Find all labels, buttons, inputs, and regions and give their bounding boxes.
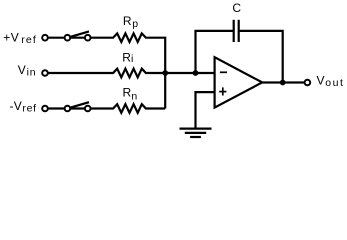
svg-text:R: R xyxy=(123,14,132,28)
svg-text:V: V xyxy=(11,31,19,45)
svg-text:R: R xyxy=(123,85,132,99)
svg-text:V: V xyxy=(14,99,22,113)
svg-text:p: p xyxy=(132,18,138,30)
svg-text:in: in xyxy=(27,67,36,79)
svg-text:V: V xyxy=(317,74,325,88)
svg-text:V: V xyxy=(18,63,26,77)
svg-text:C: C xyxy=(232,1,241,15)
svg-text:ref: ref xyxy=(21,34,36,46)
svg-text:out: out xyxy=(325,77,343,89)
svg-text:i: i xyxy=(131,53,133,65)
svg-text:n: n xyxy=(131,91,137,103)
svg-text:R: R xyxy=(122,50,131,64)
svg-text:ref: ref xyxy=(22,103,36,115)
svg-text:+: + xyxy=(3,31,10,45)
